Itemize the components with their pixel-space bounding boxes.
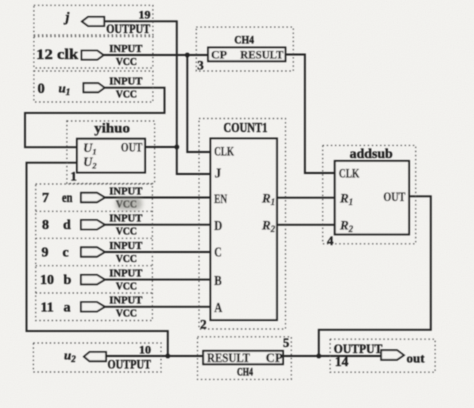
wire R2 COUNT1 to addsub: [277, 224, 335, 226]
node clk junction: [185, 53, 190, 58]
block addsub dotted box: [323, 145, 416, 248]
wire CH4 CP to out arrow: [283, 355, 381, 357]
wire net j: output j to junction to COUNT1 J pin: [105, 21, 211, 174]
input port a: [41, 296, 143, 320]
input port clk dotted box: [34, 37, 153, 69]
wire net out: addsub OUT down to bottom junction: [319, 196, 431, 356]
wire en: [105, 197, 211, 199]
wire b: [105, 279, 211, 281]
input ports column dotted box: [36, 184, 153, 321]
meter CH4 top dotted box: [196, 27, 293, 72]
gate yihuo U1/U2 dotted box: [67, 121, 155, 184]
wire d: [105, 224, 211, 226]
input port b: [40, 268, 142, 292]
wire c: [105, 251, 211, 253]
output port out dotted box: [330, 339, 435, 372]
input port u1 dotted box: [34, 71, 153, 102]
node out junction: [316, 354, 321, 359]
wire R1 COUNT1 to addsub: [277, 197, 335, 199]
wire net clk branch down to COUNT1 CLK: [187, 55, 210, 152]
wire net u1 to yihuo U1: [25, 88, 165, 148]
node j-OUT junction: [174, 145, 179, 150]
output port u2 dotted box: [33, 342, 161, 372]
output port j dotted box: [34, 5, 153, 36]
counter COUNT1 dotted box: [199, 119, 286, 332]
meter CH4 bottom dotted box: [198, 336, 292, 379]
wire net u2: yihuo U2 down to bottom junction: [27, 163, 168, 356]
wire u2 output to RESULT pin: [106, 355, 203, 357]
wire CH4 RESULT to addsub CLK: [285, 55, 334, 174]
wire a: [105, 306, 211, 308]
input port c: [42, 241, 143, 265]
wire net clk horizontal to CH4 CP: [103, 54, 208, 56]
input port d: [42, 214, 142, 238]
wire yihuo OUT stub: [145, 146, 177, 148]
input port en: [42, 186, 142, 210]
node u2 junction: [165, 354, 170, 359]
